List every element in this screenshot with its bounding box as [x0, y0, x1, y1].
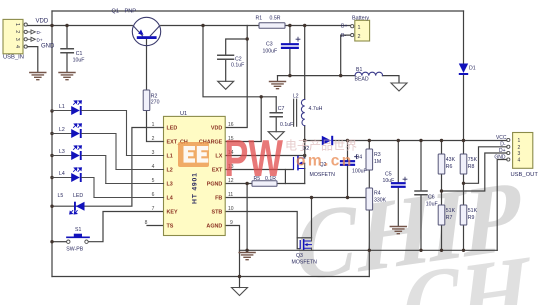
svg-text:C1: C1	[76, 51, 83, 57]
svg-text:1: 1	[358, 25, 361, 31]
svg-text:B1: B1	[356, 67, 362, 73]
svg-text:Q1: Q1	[112, 8, 119, 14]
svg-text:D+: D+	[499, 148, 506, 154]
capacitor C3 polarized	[263, 37, 301, 54]
svg-text:100uF: 100uF	[263, 48, 278, 54]
switch S1 SW-PB	[66, 227, 89, 252]
wire PGND down to ground rail	[246, 184, 248, 252]
svg-text:0.5R: 0.5R	[270, 16, 281, 22]
resistor R7	[438, 205, 455, 225]
svg-text:Q3: Q3	[296, 253, 303, 259]
svg-text:10: 10	[228, 206, 234, 212]
svg-text:PNP: PNP	[125, 8, 137, 14]
wire S1 to KEY pin7	[89, 212, 164, 242]
svg-text:GND: GND	[494, 154, 506, 160]
LED L4	[52, 168, 94, 198]
wire C6 column	[420, 141, 422, 251]
svg-text:USB_IN: USB_IN	[3, 55, 24, 61]
connector USB_OUT	[494, 133, 538, 179]
svg-text:1: 1	[14, 23, 20, 26]
resistor R9	[460, 205, 477, 225]
wire STB pin10 to Q3 gate	[225, 212, 299, 249]
diode D2	[303, 136, 334, 152]
pin stubs left	[94, 128, 164, 198]
wire USB_OUT GND to rail	[497, 160, 507, 251]
svg-text:4: 4	[14, 45, 20, 48]
svg-text:330K: 330K	[374, 198, 387, 204]
svg-text:L5: L5	[58, 193, 64, 199]
wire Q3 drain bar	[297, 237, 311, 239]
LED L5	[58, 193, 85, 214]
wire Q2 source vertical	[304, 169, 306, 184]
svg-text:D-: D-	[500, 142, 506, 148]
wire R2 to EXT_CH pin2	[147, 111, 164, 142]
svg-text:C5: C5	[385, 172, 392, 178]
svg-text:4: 4	[518, 158, 521, 164]
wire battery B- down to bead line	[341, 35, 351, 76]
svg-text:75K: 75K	[468, 157, 478, 163]
ground under C1	[59, 73, 75, 80]
wire bottom rail	[52, 276, 369, 278]
wire C3 branch	[289, 26, 291, 76]
wire Q3 drain riser to FB	[311, 198, 313, 238]
wire TS pin8 stub	[147, 225, 164, 227]
EEPW watermark overlay	[178, 130, 357, 188]
svg-text:LX: LX	[215, 154, 222, 160]
svg-text:100uF: 100uF	[352, 169, 367, 175]
inductor B1 BEAD	[355, 67, 383, 83]
svg-text:3: 3	[14, 38, 20, 41]
wire bead-line left end to ground	[277, 76, 279, 81]
svg-text:9: 9	[230, 220, 233, 226]
svg-text:VDD: VDD	[211, 126, 222, 132]
svg-text:om.cn: om.cn	[296, 153, 354, 170]
svg-text:PGND: PGND	[207, 182, 223, 188]
svg-text:R6: R6	[446, 164, 453, 170]
wire Q1 collector to battery	[161, 25, 351, 27]
svg-text:B+: B+	[341, 23, 348, 29]
svg-text:Battery: Battery	[352, 15, 369, 21]
svg-text:PW: PW	[224, 130, 284, 188]
capacitor C1	[61, 49, 84, 64]
WATERMARKS	[288, 158, 534, 305]
svg-text:L2: L2	[293, 94, 299, 100]
wire collector node down-right to charge node	[203, 26, 276, 97]
svg-text:SW-PB: SW-PB	[66, 246, 83, 252]
svg-text:D+: D+	[37, 38, 43, 43]
svg-text:USB_OUT: USB_OUT	[511, 172, 539, 178]
resistor R2	[143, 90, 159, 111]
LED L2	[52, 124, 116, 170]
svg-text:C6: C6	[428, 195, 435, 201]
svg-text:TS: TS	[167, 224, 174, 230]
capacitor C2	[218, 55, 244, 68]
wire L5 row	[52, 128, 164, 207]
connector USB_IN	[3, 19, 27, 60]
capacitor C5 polarized	[383, 172, 408, 187]
ground arrow bottom AGND	[232, 288, 248, 296]
svg-text:D-: D-	[37, 30, 42, 35]
capacitor C7	[270, 106, 293, 128]
svg-text:L3: L3	[167, 182, 173, 188]
svg-text:L3: L3	[59, 149, 65, 155]
svg-text:4.7uH: 4.7uH	[309, 106, 323, 112]
inductor L2 4.7uH	[293, 94, 323, 127]
wire S1 left	[52, 241, 66, 243]
op IC U1 HT4901	[94, 111, 234, 236]
wire EXT pin13 to Q2 gate	[225, 169, 293, 171]
svg-text:C7: C7	[278, 106, 285, 112]
svg-text:43K: 43K	[446, 157, 456, 163]
svg-text:C4: C4	[356, 155, 363, 161]
resistor R6	[438, 154, 455, 174]
svg-text:L1: L1	[59, 104, 65, 110]
svg-text:270: 270	[151, 99, 160, 105]
LED L3	[52, 146, 106, 184]
wire EXT-R5 tie vertical	[284, 170, 286, 184]
capacitor C4 polarized	[341, 155, 367, 175]
svg-text:R9: R9	[468, 215, 475, 221]
transistor Q3 MOSFETN	[292, 238, 318, 266]
svg-text:7: 7	[152, 206, 155, 212]
wire PGND pin12 through R5 to Q2 source	[225, 183, 305, 185]
svg-text:EXT: EXT	[212, 168, 223, 174]
svg-text:HT 4901: HT 4901	[192, 172, 199, 204]
wire C2 column to VDD pin16	[225, 26, 247, 128]
wire C4 column	[347, 141, 349, 198]
svg-text:KEY: KEY	[167, 210, 178, 216]
svg-text:0.1uF: 0.1uF	[280, 122, 293, 128]
svg-text:10uF: 10uF	[73, 57, 85, 63]
pin number labels left 1-8	[145, 122, 155, 226]
wire C5 column	[397, 141, 399, 227]
wire charge node down to CHARGE pin15	[225, 97, 261, 142]
wire USB_OUT D+ to R6 R7 junction	[442, 153, 507, 191]
wire USB_OUT D- to R8 R9 junction	[464, 147, 507, 184]
svg-text:2: 2	[518, 145, 521, 151]
svg-text:S1: S1	[75, 227, 81, 233]
svg-text:LED: LED	[167, 126, 178, 132]
svg-text:0.1uF: 0.1uF	[231, 63, 244, 69]
resistor R4	[366, 188, 387, 210]
svg-text:B-: B-	[341, 33, 346, 39]
svg-text:3: 3	[518, 151, 521, 157]
wire R3 R4 column	[368, 141, 370, 277]
svg-text:D1: D1	[469, 66, 476, 72]
capacitor C6	[415, 191, 438, 208]
svg-text:STB: STB	[212, 210, 223, 216]
svg-text:BEAD: BEAD	[355, 76, 369, 82]
wire bead line	[278, 76, 400, 83]
svg-text:电子产品世界: 电子产品世界	[285, 139, 357, 153]
svg-text:51K: 51K	[446, 208, 456, 214]
svg-text:R1: R1	[256, 16, 263, 22]
svg-text:R4: R4	[374, 191, 381, 197]
svg-text:LED: LED	[73, 193, 83, 199]
svg-text:VDD: VDD	[36, 18, 49, 24]
ground triangle under C7	[268, 132, 284, 140]
wire Q1 base lead	[146, 39, 148, 90]
resistor R3	[366, 149, 381, 170]
svg-text:10uF: 10uF	[426, 202, 438, 208]
wire LX pin14 to switch node	[225, 155, 305, 157]
svg-text:L4: L4	[167, 196, 173, 202]
pin number labels right 16-9	[228, 122, 234, 226]
svg-text:C3: C3	[266, 41, 273, 47]
svg-text:R8: R8	[468, 164, 475, 170]
svg-text:MOSFETN: MOSFETN	[310, 172, 336, 178]
svg-text:1: 1	[518, 138, 521, 144]
svg-text:8: 8	[145, 220, 148, 226]
wire D2 output VCC line	[305, 140, 507, 142]
svg-text:L2: L2	[167, 168, 173, 174]
svg-text:10uF: 10uF	[383, 178, 395, 184]
ground under PGND	[239, 253, 255, 260]
ground under C5	[390, 227, 406, 234]
svg-text:2: 2	[14, 30, 20, 33]
diode D1	[459, 64, 476, 76]
svg-text:L4: L4	[59, 171, 65, 177]
ground under C3 bead line	[270, 82, 286, 89]
svg-text:1M: 1M	[374, 159, 381, 165]
svg-text:U1: U1	[180, 111, 187, 117]
wire VDD net from USB_IN pin1 to Q1 emitter	[27, 25, 132, 27]
ground triangle under C2	[218, 81, 234, 89]
svg-text:11: 11	[228, 192, 233, 198]
svg-text:GND: GND	[41, 44, 55, 50]
ground triangle after bead	[391, 83, 407, 91]
LED L1	[52, 101, 127, 156]
svg-text:R7: R7	[446, 215, 453, 221]
wire USB_IN pin4 to ground	[27, 47, 37, 72]
svg-text:2: 2	[358, 34, 361, 40]
svg-text:FB: FB	[215, 196, 222, 202]
svg-text:R3: R3	[374, 152, 381, 158]
wire C2 branch	[226, 39, 248, 81]
transistor Q2 MOSFETN	[293, 141, 335, 179]
connector Battery	[341, 15, 370, 41]
wire ground rail mid	[240, 249, 498, 251]
wire left VDD bus vertical	[51, 11, 53, 277]
wire FB pin11 line	[225, 197, 369, 199]
resistor R1	[256, 16, 286, 29]
resistor R8	[460, 154, 477, 174]
svg-text:AGND: AGND	[206, 224, 222, 230]
wire C7 stem	[275, 97, 277, 132]
svg-text:51K: 51K	[468, 208, 478, 214]
svg-text:16: 16	[228, 122, 234, 128]
wire AGND pin9 down to bottom	[225, 226, 239, 288]
wire C1 stem	[66, 26, 68, 73]
ground under USB_IN pin4	[30, 73, 46, 80]
wire D1 R8 R9 column	[463, 11, 465, 250]
wire L2 inductor column	[304, 26, 306, 159]
wire R6 R7 column	[441, 141, 443, 251]
svg-text:VCC: VCC	[496, 135, 507, 141]
node D- port arrow on USB_IN pin2	[27, 30, 35, 41]
wire top rail	[52, 10, 464, 12]
transistor Q1	[112, 8, 161, 45]
svg-text:L2: L2	[59, 127, 65, 133]
svg-text:MOSFETN: MOSFETN	[292, 260, 318, 266]
svg-text:L1: L1	[167, 154, 173, 160]
resistor R5	[252, 176, 277, 186]
